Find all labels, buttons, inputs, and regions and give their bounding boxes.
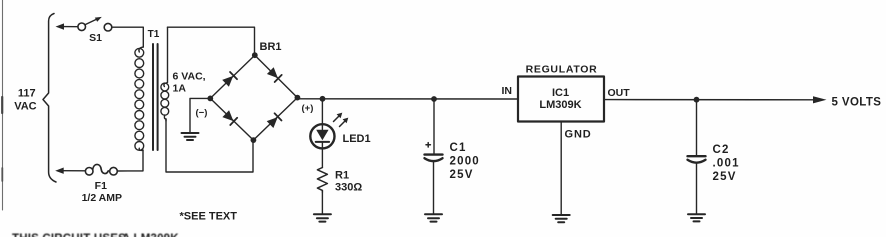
- label C2 .001 25V: [713, 144, 740, 183]
- svg-text:REGULATOR: REGULATOR: [526, 64, 598, 76]
- wire bridge plus rail to regulator IN: [297, 98, 518, 100]
- ground (C2): [688, 214, 705, 221]
- diode D4 (bottom node to right node): [267, 113, 282, 128]
- svg-text:THIS CIRCUIT USES: THIS CIRCUIT USES: [12, 233, 126, 237]
- wire hot lead with arrow to AC line: [56, 23, 78, 29]
- transformer T1 core: [153, 44, 158, 150]
- svg-text:C1: C1: [450, 142, 467, 154]
- svg-text:LM309K: LM309K: [539, 99, 581, 111]
- label C1 2000 25V: [450, 142, 480, 181]
- switch S1: [78, 17, 112, 31]
- svg-text:GND: GND: [565, 129, 592, 141]
- svg-text:IN: IN: [502, 85, 513, 97]
- node 117 VAC source brace: [43, 14, 56, 183]
- node bridge right: [295, 95, 301, 101]
- label 330 ohm: [335, 182, 362, 194]
- node C1 junction: [431, 96, 437, 102]
- svg-text:1A: 1A: [173, 83, 187, 95]
- svg-text:1/2 AMP: 1/2 AMP: [82, 192, 122, 204]
- label BR1: [260, 41, 282, 53]
- svg-text:BR1: BR1: [260, 41, 282, 53]
- svg-text:6 VAC,: 6 VAC,: [173, 71, 206, 83]
- label (+): [302, 103, 314, 114]
- label GND: [565, 129, 592, 141]
- diode D3 (left node to bottom node): [222, 110, 237, 125]
- wire R1 to ground: [321, 192, 323, 214]
- node bridge left: [207, 96, 213, 102]
- label 6 VAC, 1A: [173, 71, 206, 95]
- svg-text:R1: R1: [335, 170, 349, 182]
- svg-text:A LM309K: A LM309K: [122, 233, 179, 237]
- label IC1: [552, 87, 569, 99]
- ground (C1): [425, 214, 442, 221]
- wire bridge left node to ground: [190, 98, 210, 132]
- transformer T1 primary winding: [135, 47, 144, 150]
- svg-text:(+): (+): [302, 103, 314, 114]
- svg-text:330Ω: 330Ω: [335, 182, 362, 194]
- label 117 VAC: [14, 88, 36, 113]
- label LED1: [343, 133, 371, 145]
- wire C2 to ground: [696, 163, 698, 214]
- wire S1 to T1 primary top: [112, 27, 144, 47]
- svg-text:25V: 25V: [713, 171, 737, 183]
- regulator IC1 box: [518, 77, 604, 122]
- svg-text:117: 117: [18, 88, 36, 100]
- wire junction to C2: [696, 100, 698, 155]
- label 5 VOLTS: [832, 96, 882, 108]
- svg-text:S1: S1: [89, 32, 102, 44]
- svg-text:C2: C2: [713, 144, 730, 156]
- transformer T1 secondary winding: [161, 27, 169, 121]
- diode D1 (left node to top node): [222, 72, 237, 87]
- wire junction to C1: [433, 99, 435, 153]
- svg-text:*SEE TEXT: *SEE TEXT: [180, 211, 238, 223]
- wire junction to LED1: [321, 99, 323, 130]
- output arrow: [813, 96, 827, 103]
- svg-text:F1: F1: [95, 180, 107, 192]
- label REGULATOR: [526, 64, 598, 76]
- svg-text:5 VOLTS: 5 VOLTS: [832, 96, 882, 108]
- wire secondary top to bridge top: [168, 27, 255, 54]
- LED LED1: [310, 113, 348, 168]
- wire C1 to ground: [433, 162, 435, 215]
- label *SEE TEXT: [180, 211, 238, 223]
- wire neutral lead with arrow to AC line: [55, 168, 85, 174]
- ground (regulator): [553, 215, 570, 222]
- page edge line (decorative): [1, 0, 3, 210]
- svg-text:T1: T1: [148, 29, 160, 40]
- svg-text:OUT: OUT: [608, 87, 631, 99]
- svg-text:LED1: LED1: [343, 133, 371, 145]
- svg-text:25V: 25V: [450, 169, 474, 181]
- diode D2 (top node to right node): [267, 67, 282, 82]
- wire fuse to T1 primary bottom: [117, 150, 143, 171]
- ground (LED branch): [314, 214, 331, 221]
- label T1: [148, 29, 160, 40]
- node bridge bottom: [251, 137, 257, 143]
- label R1: [335, 170, 349, 182]
- bridge rectifier BR1 edges: [210, 55, 297, 140]
- svg-text:IC1: IC1: [552, 87, 569, 99]
- label S1: [89, 32, 102, 44]
- svg-text:2000: 2000: [450, 156, 480, 168]
- capacitor C2: [688, 156, 706, 163]
- svg-text:VAC: VAC: [14, 101, 36, 113]
- label 1/2 AMP: [82, 192, 122, 204]
- node bridge top: [252, 52, 258, 58]
- svg-text:(−): (−): [196, 108, 208, 119]
- node LED branch junction: [320, 96, 326, 102]
- resistor R1: [317, 168, 327, 193]
- label (-): [196, 108, 208, 119]
- fuse F1: [85, 164, 117, 175]
- caption (cut off at bottom edge): [12, 233, 179, 240]
- ground (transformer secondary minus): [182, 133, 199, 140]
- wire regulator OUT to output: [604, 99, 814, 101]
- wire secondary bottom to bridge bottom: [166, 119, 253, 172]
- wire regulator GND pin to ground: [560, 122, 562, 215]
- label OUT: [608, 87, 631, 99]
- capacitor C1: [425, 143, 443, 162]
- label IN: [502, 85, 513, 97]
- node C2 junction: [694, 97, 700, 103]
- label F1: [95, 180, 107, 192]
- svg-text:.001: .001: [713, 157, 740, 169]
- label LM309K: [539, 99, 581, 111]
